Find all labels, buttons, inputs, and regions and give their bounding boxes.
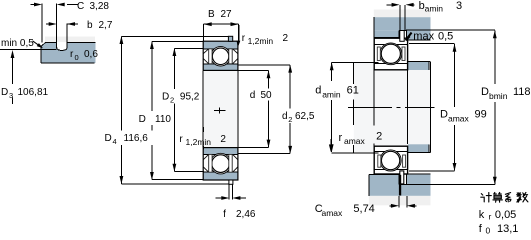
svg-text:2: 2: [220, 134, 226, 145]
C extension line left: [41, 4, 43, 43]
D4 dimension line: [120, 37, 122, 184]
svg-text:b: b: [87, 20, 93, 31]
groove walls / extension lines: [56, 4, 58, 49]
bearing face connection lines between sections: [373, 71, 375, 126]
svg-text:3,28: 3,28: [90, 1, 110, 12]
svg-text:r: r: [339, 132, 343, 144]
ball: [212, 48, 228, 64]
shaft shoulder face line (x=353.4), with text gaps: [352, 62, 354, 84]
svg-text:99: 99: [475, 109, 487, 121]
shields: [209, 49, 212, 64]
svg-text:4: 4: [113, 137, 117, 146]
centerline: [348, 107, 435, 109]
labels over lines (white bg): [103, 131, 153, 147]
groove slot (white): [57, 42, 67, 50]
svg-text:2: 2: [376, 131, 382, 143]
svg-text:amax: amax: [448, 114, 470, 124]
D_bmin dimension: [494, 30, 496, 84]
svg-text:d: d: [250, 90, 256, 101]
d_amin dimension: [331, 63, 333, 82]
svg-text:bmin: bmin: [489, 91, 508, 101]
svg-text:d: d: [282, 111, 288, 122]
D dimension line: [151, 41, 153, 179]
shaft shoulder strips: [408, 62, 429, 70]
svg-text:D: D: [1, 87, 8, 98]
svg-text:max: max: [413, 31, 434, 43]
D_amax dimension: [454, 44, 456, 107]
svg-text:amin: amin: [322, 90, 341, 100]
svg-text:D: D: [440, 109, 448, 121]
svg-text:0: 0: [75, 53, 79, 62]
center mark: [214, 110, 226, 112]
svg-text:50: 50: [261, 90, 273, 101]
svg-text:D: D: [105, 133, 112, 144]
raceway arc: [210, 153, 231, 174]
D2 dimension line: [173, 48, 175, 171]
svg-text:2,46: 2,46: [236, 209, 256, 220]
d2 dimension line: [289, 65, 291, 154]
svg-text:1,2min: 1,2min: [186, 137, 212, 147]
系: [505, 193, 510, 195]
svg-text:27: 27: [221, 9, 233, 20]
inner ring band: [203, 148, 238, 155]
svg-text:0,05: 0,05: [495, 209, 516, 221]
inner ring band: [203, 64, 238, 71]
C_amax dimension: [398, 196, 400, 208]
svg-text:d: d: [315, 85, 321, 97]
shields: [209, 154, 212, 172]
faint hatch: housing above and below, shaft: [374, 10, 431, 18]
D3 dimension arrow: [12, 57, 14, 84]
snap ring tab (white): [400, 31, 404, 42]
svg-text:110: 110: [155, 114, 171, 125]
svg-text:2: 2: [288, 115, 292, 124]
snap ring lug (dark bar into housing): [399, 175, 401, 196]
D3 level line: [0, 48, 57, 50]
svg-text:0,6: 0,6: [84, 49, 98, 60]
housing top block: [374, 17, 431, 30]
outer ring band: [203, 172, 238, 180]
r_amax label + leader: [330, 139, 332, 144]
svg-text:r: r: [489, 212, 492, 222]
blue block fragment: [41, 42, 96, 63]
svg-text:D: D: [139, 114, 146, 125]
svg-text:min 0,5: min 0,5: [1, 38, 34, 49]
svg-text:13,1: 13,1: [497, 223, 518, 235]
svg-text:C: C: [77, 1, 84, 12]
svg-text:k: k: [479, 209, 485, 221]
svg-text:amin: amin: [425, 4, 444, 14]
svg-text:2: 2: [170, 96, 174, 105]
svg-text:1,2min: 1,2min: [248, 36, 274, 46]
svg-text:0,5: 0,5: [438, 31, 453, 43]
shaft faint area between sections: [204, 71, 237, 147]
svg-text:0: 0: [486, 226, 491, 236]
svg-text:3: 3: [456, 0, 462, 12]
svg-text:2: 2: [283, 33, 289, 44]
svg-text:95,2: 95,2: [180, 92, 200, 103]
f dimension: [216, 197, 222, 199]
svg-text:116,6: 116,6: [124, 133, 149, 144]
block outlines: [46, 41, 96, 43]
svg-text:61: 61: [347, 85, 359, 97]
section outline: [203, 41, 238, 70]
svg-text:B: B: [208, 9, 215, 20]
r 1,2min bottom label: [202, 127, 204, 132]
snap ring tab bottom: [229, 180, 233, 184]
snap ring tab bottom (white): [400, 171, 404, 184]
snap ring tab top: [228, 36, 232, 41]
svg-text:3: 3: [9, 91, 13, 100]
housing bottom block: [369, 175, 431, 196]
svg-text:62,5: 62,5: [295, 111, 315, 122]
b dimension: [46, 23, 51, 25]
算: [494, 193, 501, 195]
ball: [212, 155, 230, 173]
svg-text:106,81: 106,81: [18, 87, 49, 98]
svg-text:2,7: 2,7: [99, 20, 113, 31]
svg-text:amax: amax: [322, 208, 344, 218]
svg-text:D: D: [481, 86, 489, 98]
svg-text:amax: amax: [344, 136, 366, 146]
C dimension: [31, 4, 37, 6]
faint hatch above block: [45, 37, 95, 43]
raceway arc: [211, 47, 230, 66]
d dimension line: [268, 71, 270, 148]
section outline: [203, 148, 238, 180]
数: [517, 193, 522, 197]
raceway slant lines: [203, 155, 237, 173]
svg-text:D: D: [162, 92, 169, 103]
r 1,2min top label: [238, 25, 240, 43]
B dimension: [204, 23, 239, 25]
outer ring band: [203, 41, 238, 49]
svg-text:5,74: 5,74: [353, 203, 374, 215]
max 0,5 leader + label: [406, 32, 413, 40]
raceway slant lines: [203, 49, 237, 64]
svg-text:f: f: [223, 209, 226, 220]
svg-text:118: 118: [513, 86, 531, 98]
计: [481, 194, 483, 196]
shaft end line: [430, 62, 432, 152]
b_a dimension: [399, 5, 401, 30]
计算系数 (calculation factors) drawn as strokes: [481, 193, 528, 203]
f extension lines: [228, 185, 230, 200]
